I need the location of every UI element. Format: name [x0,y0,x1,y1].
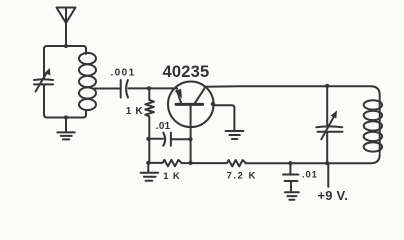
svg-text:1 K: 1 K [126,106,144,117]
svg-text:.01: .01 [302,169,318,180]
svg-text:1 K: 1 K [163,171,180,182]
svg-text:7.2 K: 7.2 K [227,170,257,181]
svg-text:+9 V.: +9 V. [318,188,349,203]
svg-text:40235: 40235 [163,63,210,81]
svg-text:.01: .01 [156,121,171,132]
svg-text:.001: .001 [111,68,136,79]
